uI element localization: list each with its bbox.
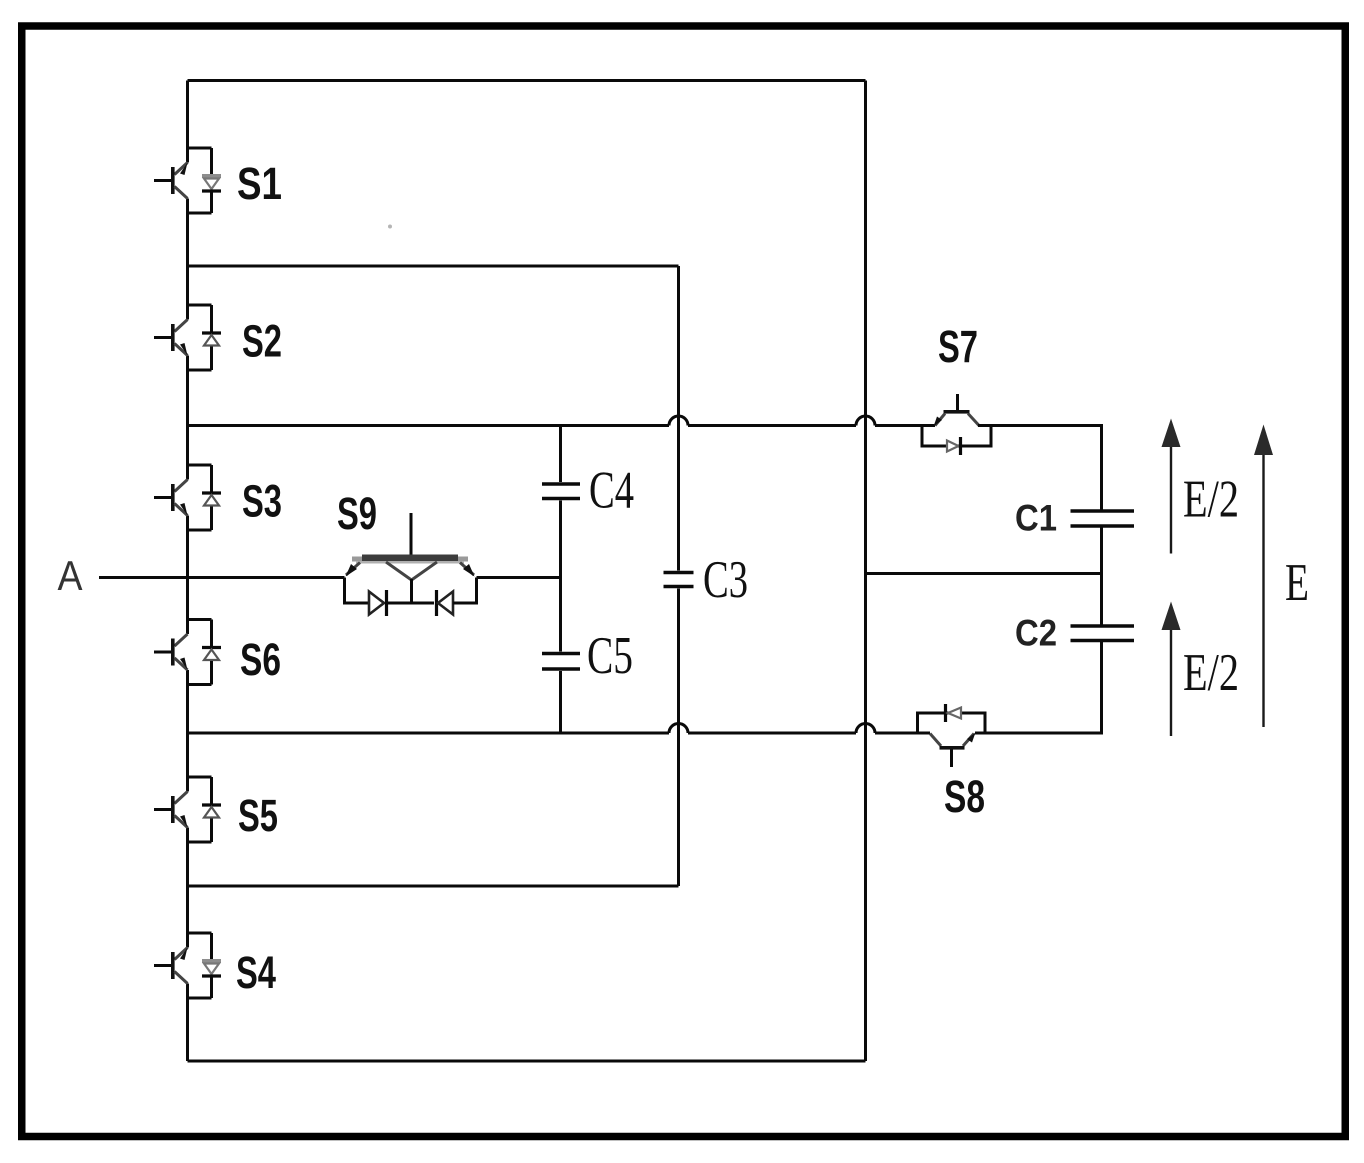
switch S8 (horizontal IGBT + series diode loop) [918, 704, 986, 767]
svg-text:S7: S7 [938, 321, 978, 372]
switch S1 (IGBT + antiparallel diode) [154, 148, 221, 213]
wire bottom bus [188, 1060, 866, 1063]
svg-text:C4: C4 [589, 462, 634, 520]
wire jump over right bus [856, 724, 875, 734]
capacitor C4 [542, 484, 580, 499]
svg-text:A: A [58, 552, 83, 599]
arrow E/2 lower [1162, 602, 1181, 737]
svg-text:S9: S9 [337, 488, 377, 539]
switch S4 (IGBT + antiparallel diode) [154, 933, 221, 998]
switch S3 (IGBT + antiparallel diode) [154, 465, 221, 530]
wire C2 to S8 row [975, 642, 1102, 733]
svg-text:E: E [1285, 554, 1309, 612]
wire [688, 424, 856, 427]
wire right bus [864, 81, 867, 1062]
wire midpoint to right bus [866, 572, 1102, 575]
wire bottom clamp row y=733 (S6-S5 node to S8) [188, 732, 670, 735]
wire [875, 732, 930, 735]
svg-text:E/2: E/2 [1183, 471, 1239, 529]
capacitor C1 [1071, 511, 1135, 526]
wire jump over right bus [856, 416, 875, 426]
capacitor C3 [664, 573, 694, 587]
bidirectional switch S9 (two IGBTs + two series diodes) [345, 513, 477, 616]
node A lead wire [99, 576, 345, 579]
wire S7 to C1 [978, 426, 1102, 510]
wire inner loop bottom (S5-S4 node to C3 column) [188, 885, 679, 888]
capacitor C5 [542, 654, 580, 670]
wire inner loop top (S1-S2 node to C3 column) [188, 265, 679, 268]
svg-text:C1: C1 [1015, 498, 1057, 539]
switch S7 (horizontal IGBT + series diode loop) [922, 394, 991, 455]
wire C1 to midpoint [1100, 528, 1103, 625]
svg-text:S8: S8 [944, 771, 985, 822]
wire left rail segments [186, 81, 189, 1062]
wire jump over C3 column [669, 724, 688, 734]
wire clamp row y=425.5 (S2-S3 node to S7) [188, 424, 670, 427]
svg-text:E/2: E/2 [1183, 644, 1239, 702]
switch S6 (IGBT + antiparallel diode) [154, 620, 221, 685]
switch S5 (IGBT + antiparallel diode) [154, 777, 221, 842]
wire flying-cap column vertical [559, 426, 562, 734]
svg-text:S6: S6 [240, 634, 281, 685]
wire S9 to flying-cap column [477, 576, 561, 579]
svg-text:C3: C3 [703, 551, 748, 609]
svg-text:S5: S5 [238, 790, 278, 841]
switch S2 (IGBT + antiparallel diode) [154, 305, 221, 370]
svg-text:C5: C5 [587, 627, 633, 685]
wire C3 column vertical [677, 266, 680, 886]
svg-text:S4: S4 [236, 947, 276, 998]
capacitor C2 [1071, 626, 1135, 641]
svg-text:S3: S3 [242, 476, 282, 527]
wire [688, 732, 856, 735]
svg-text:C2: C2 [1015, 613, 1057, 654]
arrow E [1254, 425, 1273, 728]
wire [875, 424, 935, 427]
wire jump over C3 column [669, 416, 688, 426]
stray speck [388, 225, 392, 229]
arrow E/2 upper [1162, 419, 1181, 554]
wire top bus [188, 79, 866, 82]
svg-text:S2: S2 [242, 316, 282, 367]
svg-text:S1: S1 [237, 158, 282, 209]
